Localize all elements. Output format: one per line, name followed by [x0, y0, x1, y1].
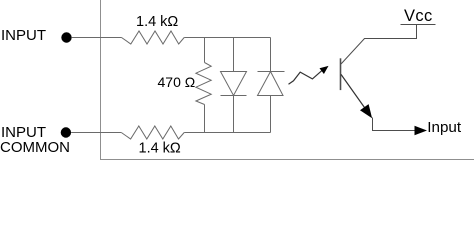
power rail Vcc bar — [401, 24, 436, 26]
resistor R3 470 Ohm (vertical) — [196, 63, 211, 105]
wire INPUT COMMON terminal to resistor — [71, 132, 121, 134]
svg-text:Vcc: Vcc — [404, 7, 433, 25]
diode D2 (cathode up) — [258, 72, 285, 96]
svg-text:1.4 kΩ: 1.4 kΩ — [139, 141, 181, 157]
light emission arrow (optocoupler) — [289, 66, 329, 84]
phototransistor Q1 base bar — [340, 58, 342, 90]
diode D1 (cathode down) — [221, 72, 247, 96]
wire INPUT terminal to resistor — [72, 37, 122, 39]
wire bottom rail — [184, 132, 270, 134]
wire diode D1 top branch — [233, 38, 235, 72]
svg-text:COMMON: COMMON — [0, 139, 70, 156]
phototransistor Q1 emitter lead with arrow — [341, 74, 372, 118]
module boundary line — [101, 0, 474, 160]
svg-text:Input: Input — [427, 119, 462, 136]
terminal dot INPUT — [61, 32, 71, 42]
phototransistor Q1 collector lead — [341, 25, 417, 65]
signal arrow to Input — [415, 126, 428, 135]
resistor R2 1.4 kOhm (bottom) — [121, 126, 184, 139]
resistor R1 1.4 kOhm (top) — [122, 31, 185, 44]
wire 470 ohm bottom branch — [204, 105, 206, 133]
terminal dot INPUT COMMON — [61, 127, 71, 137]
svg-text:INPUT: INPUT — [1, 27, 46, 44]
svg-text:470 Ω: 470 Ω — [158, 74, 196, 90]
wire diode D1 bottom branch — [233, 96, 235, 133]
wire emitter to Input arrow — [373, 118, 416, 131]
wire diode D2 bottom branch — [270, 96, 272, 133]
wire 470 ohm top branch — [204, 38, 206, 63]
wire right rail corner into diode D2 — [270, 38, 272, 72]
wire top rail — [184, 37, 270, 39]
svg-text:1.4 kΩ: 1.4 kΩ — [136, 14, 178, 30]
